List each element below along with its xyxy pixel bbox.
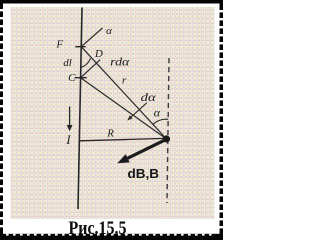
svg-text:F: F: [55, 38, 63, 50]
svg-text:I: I: [65, 133, 71, 147]
svg-text:dα: dα: [141, 90, 157, 104]
white page background: [0, 0, 223, 240]
svg-text:α: α: [106, 25, 112, 37]
svg-text:dl: dl: [63, 57, 72, 69]
tick F: [75, 46, 85, 48]
frame top band: [0, 0, 223, 4]
R line: [79, 138, 165, 140]
halftone paper field: [11, 7, 215, 219]
svg-text:α: α: [154, 105, 161, 119]
point P dot: [163, 135, 170, 142]
svg-text:rdα: rdα: [110, 55, 130, 69]
dashed vertical line through P: [167, 58, 169, 203]
frame right band (dashed): [220, 0, 224, 240]
frame left band (dashed): [0, 0, 3, 240]
frame bottom band (dashed top edge): [0, 234, 223, 240]
svg-text:C: C: [68, 72, 76, 84]
alpha segment at F: [81, 28, 102, 47]
segment C to D (arc r·dα): [81, 60, 101, 78]
svg-text:D: D: [94, 48, 103, 60]
angle alpha arc at P: [153, 119, 168, 124]
svg-text:r: r: [122, 75, 127, 87]
dB,B thick arrow: [117, 140, 165, 163]
svg-text:dB,B: dB,B: [128, 166, 160, 181]
angle arc at F: [81, 58, 91, 67]
ray P to C: [81, 78, 167, 139]
svg-text:Рис.15.5: Рис.15.5: [69, 218, 127, 239]
svg-text:R: R: [106, 128, 114, 140]
d-alpha leader arrow: [127, 103, 147, 121]
ray P to F: [81, 47, 166, 139]
current arrow I: [67, 107, 73, 132]
wire (vertical conductor): [78, 8, 82, 210]
tick C: [75, 77, 87, 79]
